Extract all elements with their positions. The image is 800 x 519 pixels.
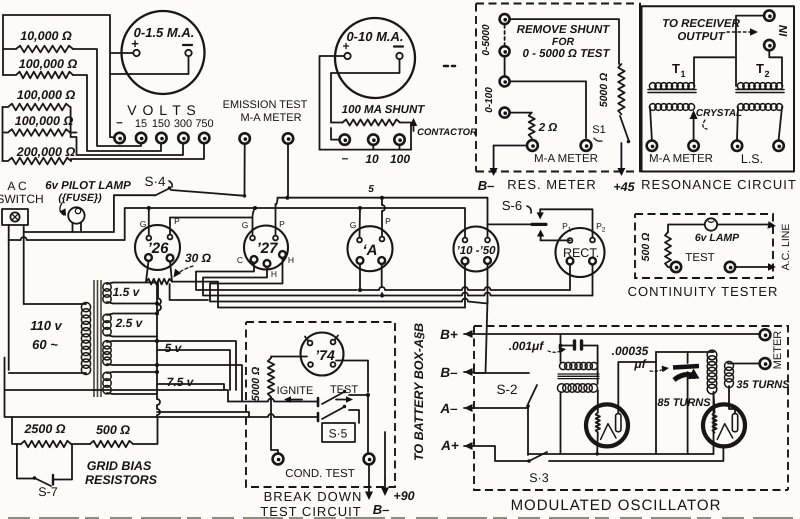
wire R2 right to 150 post — [73, 75, 161, 151]
resistor bottom down — [271, 397, 278, 454]
wire terminal3 to MA right post — [510, 81, 586, 138]
S6 lower contact from P1 — [541, 239, 570, 241]
svg-text:5: 5 — [368, 184, 374, 195]
wire T1 primary right up — [694, 57, 736, 86]
terminal res 3 — [500, 76, 510, 86]
test posts — [671, 262, 681, 272]
bus y390 — [5, 358, 229, 402]
AC switch — [2, 209, 28, 225]
binding post shunt 100 — [394, 134, 404, 144]
dashed wire between terminals 1-2 — [504, 25, 506, 45]
svg-text:T: T — [756, 61, 764, 76]
secondary 1.5v — [103, 283, 111, 303]
bus heater 2 (y295.5) — [203, 267, 379, 296]
wire S4 contact down-right bus — [114, 195, 155, 232]
switch blade upper (S5a) — [317, 398, 320, 406]
binding post shunt 10 — [368, 134, 378, 144]
svg-text:SWITCH: SWITCH — [0, 192, 44, 206]
wire terminal2-3 — [504, 57, 506, 76]
svg-text:TEST CIRCUIT: TEST CIRCUIT — [260, 504, 361, 519]
wire 26 P up to 27 G link — [170, 218, 253, 235]
svg-text:S-7: S-7 — [38, 485, 58, 499]
resonance bottom terminals — [647, 141, 657, 151]
svg-text:BREAK DOWN: BREAK DOWN — [264, 489, 363, 504]
svg-text:S-6: S-6 — [502, 198, 522, 213]
wire S1 to +45 — [620, 143, 622, 168]
oscillator bottom bus — [528, 453, 714, 455]
wire 10-50 BL down — [464, 265, 466, 308]
wire RECT BL pin down — [569, 265, 571, 291]
svg-text:0-5000: 0-5000 — [481, 24, 492, 56]
capacitor .001 — [575, 341, 582, 349]
svg-text:G: G — [350, 220, 357, 230]
bus y412 — [157, 412, 249, 417]
svg-text:RESONANCE CIRCUIT: RESONANCE CIRCUIT — [641, 177, 797, 192]
svg-text:100,000 Ω: 100,000 Ω — [17, 88, 76, 102]
svg-text:S·3: S·3 — [529, 471, 549, 485]
AC bus lower with hop — [9, 239, 21, 241]
svg-text:6v PILOT LAMP: 6v PILOT LAMP — [45, 180, 131, 192]
svg-text:CONTINUITY TESTER: CONTINUITY TESTER — [628, 284, 779, 299]
wire 27 P up — [275, 204, 277, 236]
svg-text:OUTPUT: OUTPUT — [677, 31, 725, 43]
wire emission post2 down — [287, 144, 289, 198]
svg-text:A.C. LINE: A.C. LINE — [780, 224, 792, 271]
svg-text:150: 150 — [152, 118, 170, 130]
svg-text:5000 Ω: 5000 Ω — [250, 367, 262, 401]
svg-text:μf: μf — [633, 357, 646, 371]
svg-text:500 Ω: 500 Ω — [640, 233, 652, 262]
svg-text:EMISSION TEST: EMISSION TEST — [223, 99, 308, 111]
svg-text:A–: A– — [439, 401, 458, 416]
svg-text:S·5: S·5 — [329, 427, 348, 441]
wire meter2 minus lead — [331, 59, 400, 123]
svg-text:T: T — [672, 61, 680, 76]
wire R5 right to 750 post — [71, 144, 204, 161]
wire emission post1 down — [244, 144, 246, 196]
bus B (y208) — [125, 208, 465, 240]
break down test circuit box — [246, 322, 395, 487]
svg-text:S·4: S·4 — [144, 174, 166, 189]
bus heater 1 (y290) — [196, 263, 357, 291]
svg-text:CONTACTOR: CONTACTOR — [417, 127, 477, 138]
svg-text:P: P — [279, 219, 285, 229]
osc transformer — [560, 362, 598, 369]
wire heater bus to oscillator B- feed — [474, 300, 488, 373]
primary winding 110v — [81, 303, 90, 375]
svg-text:300: 300 — [174, 118, 192, 130]
wire +90 arrow — [384, 432, 386, 480]
svg-text:6v LAMP: 6v LAMP — [695, 232, 740, 244]
svg-text:G: G — [242, 220, 249, 230]
svg-text:’27: ’27 — [257, 240, 279, 257]
scan edge bottom — [8, 517, 795, 519]
secondary 2.5v — [103, 314, 111, 336]
wire A socket BR down — [381, 264, 383, 287]
svg-text:REMOVE SHUNT: REMOVE SHUNT — [517, 24, 611, 36]
svg-text:0-100: 0-100 — [484, 87, 495, 113]
resistor shunt — [343, 120, 401, 126]
bus A (y197.7) — [276, 198, 488, 225]
svg-text:5000 Ω: 5000 Ω — [598, 73, 610, 107]
svg-text:30 Ω: 30 Ω — [185, 251, 212, 265]
binding post volts 300 — [178, 133, 188, 143]
wire R3/R4 right to 300 post — [70, 107, 183, 155]
svg-text:2 Ω: 2 Ω — [538, 122, 558, 134]
dashed arrow to IN — [727, 31, 753, 33]
svg-text:750: 750 — [195, 118, 213, 130]
svg-text:5 v: 5 v — [165, 341, 183, 355]
svg-text:2: 2 — [764, 69, 769, 79]
modulated oscillator box — [474, 326, 788, 490]
svg-text:C: C — [237, 255, 243, 265]
resonance circuit box — [642, 6, 795, 171]
tube socket '74 — [301, 333, 344, 376]
wire meter minus return — [110, 56, 189, 74]
bus y417 to breakdown lower — [5, 390, 319, 417]
S6 upper contact from P2 — [540, 209, 592, 237]
binding post emission 1 — [240, 133, 250, 143]
wire variable cap stem down — [687, 380, 689, 454]
svg-text:500 Ω: 500 Ω — [96, 423, 130, 437]
svg-text:B–: B– — [478, 178, 495, 193]
terminal res 4 — [500, 108, 510, 118]
svg-text:TO BATTERY BOX-A§B: TO BATTERY BOX-A§B — [412, 323, 426, 461]
wire 26 heater elbow — [170, 284, 208, 300]
svg-text:+: + — [342, 39, 349, 53]
svg-text:M-A METER: M-A METER — [240, 112, 301, 124]
wire minus post lead — [110, 136, 115, 139]
tube socket A — [348, 226, 393, 271]
svg-text:1: 1 — [680, 69, 685, 79]
svg-text:RESISTORS: RESISTORS — [85, 473, 158, 487]
meter M2 0-10MA — [335, 18, 415, 98]
svg-text:A+: A+ — [440, 438, 459, 453]
wire RECT BR pin down — [592, 265, 594, 296]
svg-text:H: H — [288, 255, 294, 265]
binding post shunt minus — [340, 134, 350, 144]
svg-text:B–: B– — [440, 365, 458, 380]
B+ bus inside — [474, 333, 760, 335]
wire A P up with hop — [381, 211, 383, 237]
svg-text:COND. TEST: COND. TEST — [285, 468, 354, 480]
svg-text:M-A METER: M-A METER — [534, 153, 598, 165]
svg-text:TEST: TEST — [685, 252, 714, 264]
wire MA left post to B- — [494, 145, 527, 147]
svg-text:35 TURNS: 35 TURNS — [736, 379, 790, 391]
binding post volts 15 — [136, 133, 146, 143]
svg-text:FOR: FOR — [552, 36, 575, 48]
svg-text:CRYSTAL: CRYSTAL — [696, 108, 742, 119]
bus heater 4 (y307.5) — [172, 282, 465, 308]
svg-text:7.5 v: 7.5 v — [167, 375, 195, 389]
svg-text:–: – — [342, 151, 349, 165]
svg-text:100: 100 — [390, 152, 410, 166]
svg-text:B–: B– — [373, 502, 390, 517]
continuity tester box — [635, 214, 773, 278]
secondary 7.5v — [103, 372, 111, 394]
tube socket '10-'50 — [454, 227, 499, 272]
wire right rail down to B- arrow — [367, 395, 369, 454]
svg-text:200,000 Ω: 200,000 Ω — [16, 145, 76, 159]
binding post volts minus — [114, 133, 124, 143]
binding post emission 2 — [283, 133, 293, 143]
svg-text:M-A METER: M-A METER — [649, 153, 713, 165]
power transformer core — [94, 280, 101, 397]
switch blade lower (S5b) — [317, 413, 320, 421]
transformer connections — [560, 334, 562, 362]
wire left bus top group — [2, 15, 4, 75]
switch S-3 — [474, 446, 529, 461]
wire meter2 plus lead — [320, 56, 345, 150]
svg-text:S-2: S-2 — [496, 382, 517, 397]
6v lamp — [705, 218, 717, 230]
meter M1 0-1.5MA — [122, 11, 205, 94]
svg-text:({FUSE}): ({FUSE}) — [58, 192, 102, 204]
svg-text:’74: ’74 — [315, 347, 335, 363]
triode V2 — [703, 404, 745, 446]
MA meter posts — [527, 140, 538, 151]
wires AC switch down — [8, 225, 10, 370]
wire 26 heater pins down to 30ohm — [146, 261, 149, 282]
resistor 500 ohm vertical — [665, 232, 671, 267]
svg-text:‘A: ‘A — [363, 242, 378, 259]
wire meter plus lead — [110, 52, 133, 54]
svg-text:G: G — [140, 219, 147, 229]
wires secondary to terminals — [650, 107, 652, 140]
svg-text:.00035: .00035 — [612, 344, 649, 358]
svg-text:10: 10 — [365, 152, 379, 166]
svg-text:A C: A C — [7, 179, 27, 193]
terminal res 1 — [500, 14, 510, 24]
bus heater 3 (y301.5) — [210, 258, 462, 302]
bus y401.5 to breakdown — [228, 399, 318, 402]
wire R4 right join — [70, 132, 77, 134]
svg-text:–: – — [116, 115, 123, 129]
switch S-7 — [17, 444, 33, 479]
wire shunt rail — [320, 149, 412, 151]
svg-text:+: + — [131, 36, 139, 51]
svg-text:1: 1 — [568, 227, 572, 234]
svg-text:TO RECEIVER: TO RECEIVER — [662, 18, 740, 30]
svg-text:GRID BIAS: GRID BIAS — [87, 459, 152, 473]
svg-text:IN: IN — [778, 25, 790, 37]
wire R1 right to 15 post — [73, 49, 141, 146]
tank circuit wiring — [656, 351, 714, 353]
binding post volts 150 — [156, 133, 166, 143]
contactor arrow — [413, 126, 415, 131]
V1 connections — [597, 390, 599, 413]
cond test terminals — [273, 454, 284, 465]
svg-text:60 ~: 60 ~ — [32, 337, 58, 352]
wire 35t to meter2 — [728, 362, 760, 365]
svg-text:1.5 v: 1.5 v — [113, 285, 141, 299]
svg-text:2500 Ω: 2500 Ω — [23, 422, 65, 436]
crystal arrow — [693, 119, 695, 140]
svg-text:110 v: 110 v — [30, 318, 62, 333]
wire terminal1 to 5000 resistor — [510, 19, 619, 64]
tube socket '26 — [135, 225, 180, 270]
wire A socket BL down — [359, 264, 361, 290]
svg-text:S1: S1 — [592, 124, 605, 136]
coil 85 turns — [707, 350, 717, 394]
tap horizontals — [157, 341, 236, 390]
svg-text:RES. METER: RES. METER — [507, 177, 596, 192]
svg-text:100,000 Ω: 100,000 Ω — [15, 114, 74, 128]
stray marks — [444, 65, 455, 68]
AC bus upper — [24, 231, 114, 233]
wire 30ohm center tap down — [158, 282, 161, 314]
terminal IN 1 — [764, 10, 774, 20]
wire A G up — [359, 208, 362, 238]
svg-text:0 - 5000 Ω TEST: 0 - 5000 Ω TEST — [523, 48, 611, 60]
svg-text:85 TURNS: 85 TURNS — [657, 397, 711, 409]
wire left bus lower group — [2, 107, 4, 161]
res meter box — [476, 4, 638, 172]
tube socket '27 — [244, 226, 288, 270]
svg-text:.001μf: .001μf — [509, 339, 545, 353]
variable capacitor — [673, 366, 699, 368]
binding post volts 750 — [199, 133, 209, 143]
svg-text:+45: +45 — [613, 180, 635, 194]
wire 74 left pin to resistor — [271, 357, 307, 359]
triode V1 — [586, 404, 628, 446]
svg-text:2.5 v: 2.5 v — [115, 316, 144, 330]
wire top bus to meter — [3, 15, 110, 137]
S-5 box — [322, 423, 355, 442]
terminal IN 2 — [764, 40, 774, 50]
wire 26 G up — [148, 208, 150, 236]
wire 74 right pin to right rail — [336, 361, 368, 393]
wire IN1 to junction — [736, 16, 764, 86]
V2 connections — [714, 392, 715, 413]
svg-text:+90: +90 — [393, 489, 414, 503]
svg-text:0-10 M.A.: 0-10 M.A. — [346, 29, 403, 44]
transformer tap bus vertical — [156, 283, 158, 400]
resistor 2 ohm — [510, 112, 532, 114]
svg-text:10,000 Ω: 10,000 Ω — [20, 29, 72, 43]
svg-text:IGNITE: IGNITE — [277, 385, 314, 397]
wires lamp — [668, 225, 705, 233]
terminal res 2 — [500, 46, 510, 56]
svg-text:’10 -’50: ’10 -’50 — [457, 245, 497, 257]
svg-text:MODULATED OSCILLATOR: MODULATED OSCILLATOR — [511, 497, 722, 514]
svg-text:0-1.5 M.A.: 0-1.5 M.A. — [134, 25, 195, 40]
wire IN2 to T2 right — [769, 51, 782, 87]
pilot lamp — [68, 207, 84, 223]
wire 27 G up — [253, 208, 256, 236]
svg-text:2: 2 — [602, 227, 606, 234]
secondary 5v — [103, 341, 111, 366]
tube socket RECT — [556, 228, 605, 277]
svg-text:H: H — [271, 269, 277, 279]
svg-text:100,000 Ω: 100,000 Ω — [19, 57, 78, 71]
svg-text:P: P — [385, 216, 391, 226]
svg-text:100 MA SHUNT: 100 MA SHUNT — [342, 104, 426, 116]
svg-text:V O L T S: V O L T S — [127, 102, 196, 118]
svg-text:B+: B+ — [440, 327, 458, 342]
svg-text:L.S.: L.S. — [741, 152, 763, 166]
coil 35 turns — [725, 361, 734, 387]
meter posts oscillator — [760, 329, 771, 340]
svg-text:15: 15 — [135, 118, 147, 130]
svg-text:METER: METER — [772, 331, 784, 370]
